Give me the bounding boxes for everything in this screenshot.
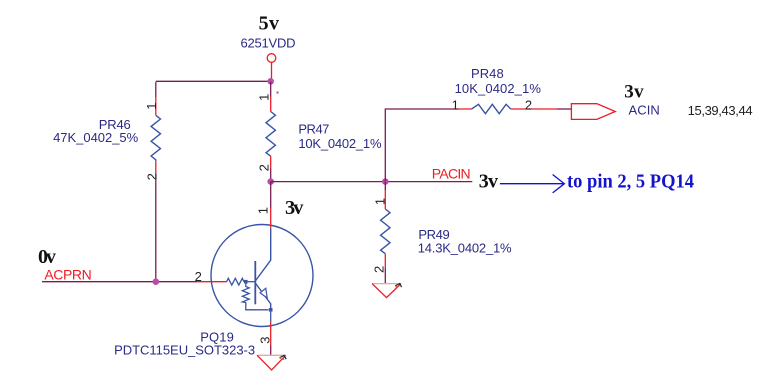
svg-text:3v: 3v <box>285 197 304 219</box>
resistor PR48 <box>452 66 557 114</box>
svg-text:2: 2 <box>372 266 387 273</box>
svg-text:PACIN: PACIN <box>432 166 471 182</box>
output port ACIN <box>571 81 752 119</box>
svg-text:15,39,43,44: 15,39,43,44 <box>688 103 753 118</box>
svg-text:ACPRN: ACPRN <box>44 267 91 283</box>
wire PACIN node up to PR48 <box>385 109 452 182</box>
svg-text:2: 2 <box>525 97 532 112</box>
svg-text:PR48: PR48 <box>471 66 504 81</box>
svg-text:1: 1 <box>452 97 459 112</box>
resistor PR49 <box>372 182 512 273</box>
svg-text:PDTC115EU_SOT323-3: PDTC115EU_SOT323-3 <box>114 343 255 358</box>
svg-text:3v: 3v <box>479 171 498 193</box>
svg-text:14.3K_0402_1%: 14.3K_0402_1% <box>418 240 512 255</box>
svg-text:2: 2 <box>257 164 272 171</box>
wire PR49 to ground <box>384 268 386 284</box>
wire emitter to ground <box>270 346 272 356</box>
svg-text:0v: 0v <box>38 246 56 268</box>
svg-text:ACIN: ACIN <box>629 103 660 118</box>
junction PACIN right <box>382 178 389 185</box>
ground below PR49 <box>372 284 402 298</box>
junction ACPRN <box>153 278 160 285</box>
svg-text:2: 2 <box>145 173 160 180</box>
wire collector from junction <box>270 182 272 208</box>
wire PR47 to PACIN node <box>270 169 272 182</box>
wire power stub <box>271 62 273 81</box>
wire emitter pin <box>270 321 272 346</box>
svg-text:6251VDD: 6251VDD <box>241 35 296 50</box>
svg-text:10K_0402_1%: 10K_0402_1% <box>455 81 542 96</box>
power symbol 6251VDD 5v <box>241 13 296 63</box>
junction top <box>267 78 274 85</box>
svg-text:1: 1 <box>257 94 272 101</box>
wire PACIN horizontal <box>271 181 473 183</box>
wire collector pin <box>270 208 272 228</box>
wire top horizontal <box>156 80 271 82</box>
svg-text:to pin 2, 5 PQ14: to pin 2, 5 PQ14 <box>567 171 694 193</box>
ground below PQ19 <box>257 355 286 370</box>
resistor PR46 <box>53 82 160 181</box>
svg-text:2: 2 <box>195 269 202 284</box>
svg-text:10K_0402_1%: 10K_0402_1% <box>298 136 382 151</box>
wire ACPRN <box>42 281 197 283</box>
svg-text:3v: 3v <box>624 81 644 102</box>
wire base pin red <box>197 281 227 283</box>
svg-text:5v: 5v <box>259 13 279 35</box>
wire PR48 to port <box>557 108 572 110</box>
svg-text:PR47: PR47 <box>298 121 329 136</box>
junction PACIN left <box>267 178 274 185</box>
resistor PR47 <box>257 82 382 172</box>
svg-text:1: 1 <box>144 102 159 109</box>
transistor PQ19 <box>114 207 313 358</box>
svg-text:47K_0402_5%: 47K_0402_5% <box>53 130 139 145</box>
svg-text:1: 1 <box>373 198 388 205</box>
wire PR46 to ACPRN node <box>155 181 157 282</box>
stray dot <box>277 92 279 94</box>
svg-text:1: 1 <box>256 207 271 214</box>
annotation arrow to pin 2, 5 PQ14 <box>500 171 694 193</box>
